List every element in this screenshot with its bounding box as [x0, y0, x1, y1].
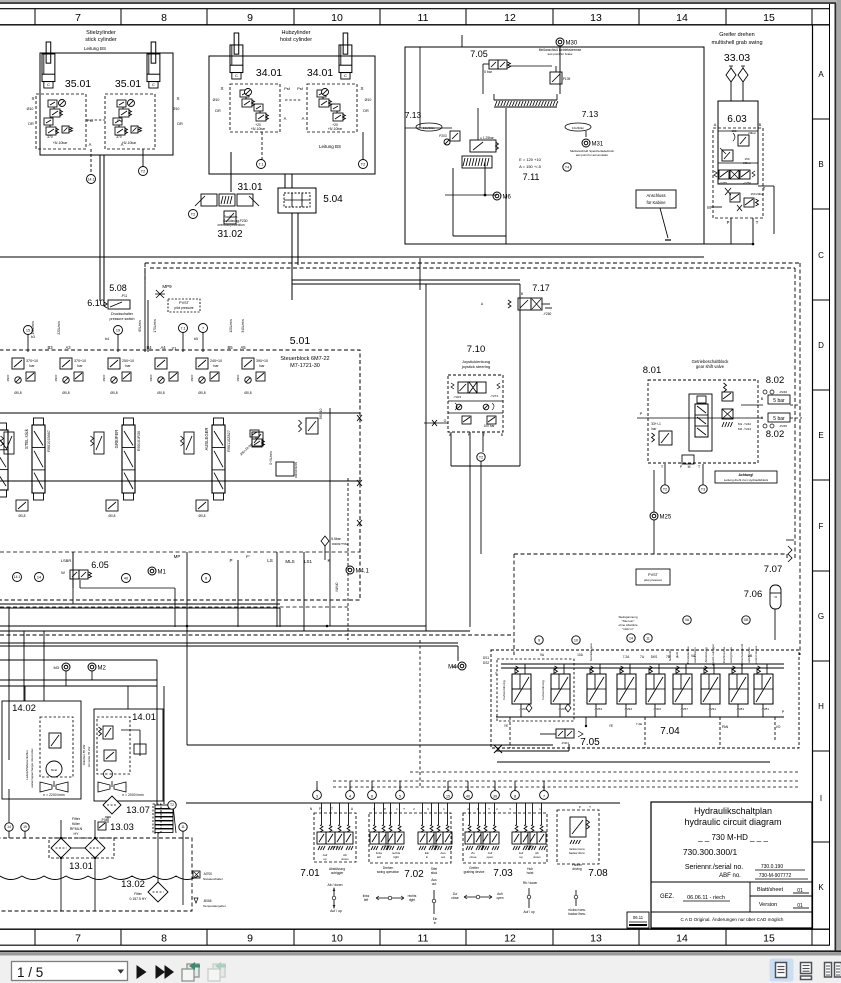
svg-text:11: 11	[181, 825, 185, 829]
svg-text:Ladeluft/Wasserkühler: Ladeluft/Wasserkühler	[25, 750, 29, 780]
svg-text:35.01: 35.01	[65, 78, 91, 90]
svg-text:M3: M3	[53, 665, 59, 670]
svg-text:7.13: 7.13	[582, 109, 599, 119]
svg-text:B: B	[759, 122, 762, 127]
svg-text:7.11: 7.11	[523, 172, 540, 182]
svg-text:7.1: 7.1	[181, 326, 186, 330]
svg-text:7: 7	[202, 326, 204, 330]
svg-text:b3: b3	[31, 335, 35, 339]
svg-text:7.07: 7.07	[764, 564, 783, 575]
svg-text:-P11: -P11	[121, 294, 128, 298]
svg-text:Hydraulikschaltplan: Hydraulikschaltplan	[694, 806, 772, 816]
svg-text:A: A	[89, 142, 92, 147]
svg-text:06.06.11 - riech: 06.06.11 - riech	[687, 895, 725, 901]
svg-text:close: close	[469, 855, 476, 859]
svg-text:B3: B3	[47, 345, 53, 350]
svg-text:hydraulic circuit diagram: hydraulic circuit diagram	[684, 817, 781, 827]
svg-text:Psf: Psf	[87, 118, 94, 123]
svg-text:8.02: 8.02	[766, 429, 785, 440]
svg-text:15: 15	[763, 933, 775, 945]
svg-text:R90101R30: R90101R30	[137, 431, 141, 451]
svg-text:multishell grab swing: multishell grab swing	[711, 40, 762, 46]
svg-text:Temperaturgeber: Temperaturgeber	[203, 904, 226, 908]
svg-text:34.01: 34.01	[256, 67, 282, 79]
svg-text:T3: T3	[701, 487, 705, 491]
svg-text:out: out	[441, 855, 445, 859]
svg-text:Pendelachse: Pendelachse	[686, 646, 690, 664]
svg-text:(670): (670)	[331, 845, 338, 849]
svg-text:-Y256: -Y256	[743, 181, 751, 185]
svg-text:M4: M4	[452, 664, 458, 669]
svg-text:glatz: glatz	[675, 651, 679, 658]
svg-text:B5: B5	[227, 345, 233, 350]
svg-text:15: 15	[26, 328, 30, 332]
svg-text:Ø0,8: Ø0,8	[198, 391, 205, 395]
svg-text:250+10: 250+10	[122, 359, 134, 363]
svg-text:-P245: -P245	[779, 424, 787, 428]
svg-text:C: C	[152, 82, 155, 87]
svg-text:7.02: 7.02	[404, 869, 424, 880]
svg-text:R900609209: R900609209	[294, 462, 298, 478]
svg-text:DB: DB	[748, 654, 752, 658]
svg-text:20bar: 20bar	[743, 161, 751, 165]
svg-text:Abstützung: Abstützung	[704, 647, 708, 662]
svg-text:(670): (670)	[477, 844, 484, 848]
svg-text:R900: R900	[6, 374, 10, 381]
svg-text:-Y302: -Y302	[653, 707, 661, 711]
svg-text:pressure switch: pressure switch	[110, 317, 135, 321]
svg-text:T: T	[763, 186, 766, 191]
svg-text:pilot pressure: pilot pressure	[174, 306, 193, 310]
svg-text:19: 19	[23, 825, 27, 829]
svg-text:X: X	[31, 96, 34, 101]
svg-text:Ø0,8: Ø0,8	[157, 391, 164, 395]
svg-text:DR: DR	[215, 109, 221, 113]
svg-text:-Y255: -Y255	[719, 181, 727, 185]
svg-text:8: 8	[161, 12, 167, 24]
svg-text:33.03: 33.03	[724, 52, 750, 64]
svg-text:5 bar: 5 bar	[773, 416, 785, 422]
svg-text:grabing device: grabing device	[464, 870, 485, 874]
svg-text:13: 13	[590, 933, 602, 945]
svg-text:M: M	[688, 465, 691, 469]
svg-text:P203: P203	[439, 134, 447, 138]
svg-text:hoist cylinder: hoist cylinder	[280, 37, 312, 43]
svg-text:730.0.190: 730.0.190	[761, 864, 783, 870]
svg-text:8.01: 8.01	[643, 365, 662, 376]
svg-text:T4: T4	[565, 165, 569, 169]
svg-text:H: H	[818, 702, 824, 711]
svg-text:füller: füller	[72, 822, 81, 826]
svg-text:Ø10: Ø10	[365, 98, 372, 102]
svg-text:9: 9	[247, 933, 253, 945]
svg-text:AUSLEGER: AUSLEGER	[204, 428, 209, 451]
svg-text:7.1: 7.1	[258, 162, 263, 166]
svg-text:in: in	[434, 921, 437, 925]
svg-text:Getriebe gear: Getriebe gear	[589, 643, 593, 661]
svg-text:MLS: MLS	[285, 559, 294, 564]
svg-text:Hubzylinder: Hubzylinder	[281, 30, 310, 36]
svg-text:7.03: 7.03	[493, 868, 513, 879]
svg-text:right: right	[393, 855, 399, 859]
svg-text:34.01: 34.01	[307, 67, 333, 79]
svg-text:+5/-10bar: +5/-10bar	[53, 141, 68, 145]
svg-text:Ø0,8: Ø0,8	[244, 391, 251, 395]
svg-text:170L/min: 170L/min	[153, 319, 157, 332]
svg-text:test point for brake: test point for brake	[548, 52, 573, 56]
svg-text:6.03: 6.03	[727, 114, 747, 125]
svg-text:oil cooler 65 kW: oil cooler 65 kW	[87, 746, 91, 767]
svg-text:Psf: Psf	[117, 118, 124, 123]
svg-text:7: 7	[543, 795, 545, 799]
svg-text:5 bar: 5 bar	[773, 398, 785, 404]
svg-text:up: up	[519, 855, 523, 859]
svg-text:DR: DR	[28, 122, 34, 126]
svg-text:M4.1: M4.1	[356, 569, 370, 575]
svg-text:M30: M30	[566, 41, 578, 47]
svg-text:14: 14	[7, 825, 11, 829]
svg-text:0.157.5 HY: 0.157.5 HY	[130, 897, 148, 901]
svg-text:C: C	[344, 73, 347, 78]
svg-text:Drehbremse: Drehbremse	[722, 646, 726, 663]
svg-text:(670): (670)	[431, 844, 438, 848]
svg-text:M6: M6	[503, 195, 512, 201]
svg-text:220L/min: 220L/min	[57, 321, 61, 334]
svg-text:Ø0,8: Ø0,8	[110, 391, 117, 395]
svg-text:20bar: 20bar	[748, 131, 756, 135]
svg-text:6: 6	[371, 795, 373, 799]
svg-text:0+3L/min: 0+3L/min	[269, 451, 273, 464]
svg-text:Auf / up: Auf / up	[330, 909, 342, 913]
svg-text:W: W	[61, 570, 65, 575]
svg-text:6.05: 6.05	[91, 560, 109, 570]
svg-text:Ø10: Ø10	[213, 98, 220, 102]
svg-text:Filter: Filter	[72, 817, 81, 821]
svg-text:_ _ 730 M-HD _ _ _: _ _ 730 M-HD _ _ _	[697, 833, 768, 842]
svg-text:PVST: PVST	[648, 573, 659, 577]
svg-text:stick: stick	[431, 871, 438, 875]
svg-text:water/supercharger intercooler: water/supercharger intercooler	[30, 748, 34, 787]
svg-text:Filter: Filter	[134, 892, 142, 896]
svg-text:370+10: 370+10	[74, 359, 86, 363]
svg-text:≈≡: ≈≡	[774, 595, 778, 599]
svg-text:Fahren/driving: Fahren/driving	[541, 680, 545, 700]
svg-text:-P246: -P246	[779, 390, 787, 394]
svg-text:-P230: -P230	[238, 219, 247, 223]
svg-text:Auf / up: Auf / up	[524, 910, 535, 914]
svg-text:Steuerblock 6M7-22: Steuerblock 6M7-22	[280, 356, 329, 362]
svg-text:370: 370	[47, 135, 53, 139]
svg-text:P: P	[229, 558, 232, 563]
svg-text:D: D	[818, 341, 824, 350]
svg-text:P: P	[579, 805, 581, 809]
svg-text:A: A	[284, 116, 287, 121]
svg-text:Leitung dreht zum Hydraulikblo: Leitung dreht zum Hydraulikblock	[724, 478, 769, 482]
svg-text:7.08: 7.08	[588, 868, 608, 879]
svg-text:31.01: 31.01	[237, 182, 262, 193]
svg-text:7.13: 7.13	[405, 110, 422, 120]
svg-text:8: 8	[205, 576, 207, 580]
svg-text:10x/füller: 10x/füller	[572, 126, 584, 130]
svg-text:11: 11	[418, 933, 429, 945]
svg-text:T: T	[756, 220, 759, 225]
svg-text:b4: b4	[105, 337, 109, 341]
svg-text:7.17: 7.17	[532, 283, 550, 293]
svg-text:P: P	[640, 411, 643, 416]
svg-text:Psf: Psf	[284, 86, 291, 91]
svg-text:5.08: 5.08	[109, 283, 127, 293]
svg-text:gear shift valve: gear shift valve	[696, 364, 725, 369]
svg-text:370: 370	[116, 135, 122, 139]
svg-text:PVST: PVST	[179, 301, 190, 305]
svg-text:35.01: 35.01	[115, 78, 141, 90]
svg-text:4-point-outrigger: 4-point-outrigger	[711, 644, 715, 666]
svg-text:swing operation: swing operation	[377, 870, 400, 874]
svg-text:GREIFER: GREIFER	[114, 430, 119, 449]
svg-text:13: 13	[590, 12, 602, 24]
svg-text:Leitung BS: Leitung BS	[84, 46, 106, 51]
svg-text:3: 3	[316, 795, 318, 799]
svg-text:MP9: MP9	[162, 284, 172, 289]
svg-text:K: K	[818, 883, 824, 892]
svg-text:Y1: Y1	[171, 346, 177, 351]
svg-text:40: 40	[466, 795, 470, 799]
svg-text:C: C	[235, 73, 238, 78]
svg-text:7.01: 7.01	[300, 868, 320, 879]
svg-text:R900: R900	[149, 374, 153, 381]
svg-text:Psf: Psf	[297, 86, 304, 91]
svg-text:G: G	[444, 419, 447, 423]
svg-text:Ø0,8: Ø0,8	[199, 514, 206, 518]
svg-text:13.03: 13.03	[110, 822, 134, 833]
svg-text:hoist: hoist	[527, 871, 534, 875]
svg-text:DS2: DS2	[483, 661, 489, 665]
svg-text:340L/min: 340L/min	[241, 319, 245, 332]
svg-text:joystick steering: joystick steering	[461, 364, 490, 369]
svg-text:swing brake: swing brake	[729, 647, 733, 663]
svg-text:14.1: 14.1	[14, 575, 21, 579]
svg-text:Fahren/driving: Fahren/driving	[502, 680, 506, 700]
svg-text:14.01: 14.01	[132, 712, 156, 723]
svg-text:B: B	[521, 292, 523, 296]
svg-text:down: down	[533, 855, 541, 859]
svg-text:(670): (670)	[525, 844, 532, 848]
svg-text:"stütz in": "stütz in"	[622, 627, 634, 631]
svg-text:Mcal: Mcal	[51, 768, 57, 772]
svg-text:I: I	[820, 794, 822, 803]
svg-text:driving: driving	[572, 867, 582, 871]
svg-text:Druckschalter: Druckschalter	[111, 312, 134, 316]
svg-text:B4: B4	[146, 345, 152, 350]
svg-text:DS1: DS1	[483, 656, 489, 660]
svg-text:13.07: 13.07	[126, 805, 150, 816]
svg-text:120L/min: 120L/min	[229, 319, 233, 332]
svg-text:R900977562: R900977562	[332, 542, 348, 546]
svg-text:right: right	[409, 898, 415, 902]
svg-text:390+10: 390+10	[319, 408, 323, 419]
svg-text:5.01: 5.01	[290, 335, 311, 347]
svg-text:stick cylinder: stick cylinder	[85, 37, 117, 43]
svg-text:Ölkühler 85 kW: Ölkühler 85 kW	[82, 745, 86, 766]
svg-text:150: 150	[731, 129, 736, 133]
svg-text:M1 -Y242: M1 -Y242	[738, 422, 751, 426]
svg-text:-Y253: -Y253	[594, 707, 602, 711]
svg-text:1 / 5: 1 / 5	[17, 965, 43, 980]
svg-text:-Y281: -Y281	[736, 707, 744, 711]
svg-text:A: A	[714, 122, 717, 127]
svg-text:A: A	[121, 142, 124, 147]
svg-text:T: T	[589, 805, 591, 809]
svg-text:Achtung!: Achtung!	[739, 473, 754, 477]
svg-text:240+10: 240+10	[210, 359, 222, 363]
svg-text:150: 150	[750, 192, 755, 196]
svg-text:390+10: 390+10	[256, 359, 268, 363]
svg-text:10: 10	[331, 12, 343, 24]
svg-text:≥ 1.25bar: ≥ 1.25bar	[480, 136, 494, 140]
svg-text:open: open	[496, 896, 503, 900]
svg-text:VO: VO	[776, 725, 781, 729]
svg-text:7.2A: 7.2A	[623, 655, 630, 659]
svg-text:Seriennr./serial no.: Seriennr./serial no.	[685, 864, 743, 871]
svg-text:M2 -Y244: M2 -Y244	[738, 427, 751, 431]
svg-text:7: 7	[75, 933, 81, 945]
svg-text:Rb / down: Rb / down	[523, 881, 538, 885]
svg-text:PAN: PAN	[722, 725, 729, 729]
svg-text:-P04: -P04	[101, 818, 108, 822]
svg-text:ABF no.: ABF no.	[719, 873, 741, 879]
svg-text:11: 11	[646, 636, 650, 640]
svg-text:14: 14	[676, 933, 688, 945]
svg-text:(670): (670)	[383, 844, 390, 848]
svg-text:test point for accumulator: test point for accumulator	[576, 153, 608, 157]
svg-text:Version: Version	[759, 902, 777, 908]
svg-text:A: A	[818, 70, 824, 79]
svg-text:bar: bar	[29, 364, 35, 368]
svg-text:40: 40	[124, 576, 128, 580]
svg-text:G: G	[818, 612, 824, 621]
svg-text:P: P	[384, 807, 386, 811]
svg-text:M31: M31	[592, 142, 604, 148]
svg-text:Anschluss: Anschluss	[646, 193, 665, 198]
svg-text:15: 15	[446, 795, 450, 799]
svg-text:7.10: 7.10	[467, 344, 486, 355]
svg-text:9: 9	[538, 638, 540, 642]
svg-text:n = 2200 l/min: n = 2200 l/min	[43, 793, 65, 797]
svg-text:T2: T2	[141, 169, 145, 173]
svg-text:33+/-1: 33+/-1	[651, 422, 661, 426]
svg-text:65L/min: 65L/min	[138, 320, 142, 332]
svg-text:R901015667: R901015667	[47, 430, 51, 452]
svg-text:31.02: 31.02	[217, 229, 242, 240]
svg-text:F: F	[819, 522, 824, 531]
svg-text:14.02: 14.02	[12, 703, 36, 714]
svg-text:M1: M1	[158, 570, 167, 576]
svg-text:YE: YE	[609, 724, 613, 728]
svg-text:A = 150 +/-5: A = 150 +/-5	[519, 164, 542, 169]
svg-text:730.300.300/1: 730.300.300/1	[683, 847, 738, 857]
svg-text:Ab / down: Ab / down	[327, 883, 342, 887]
svg-text:Ø0,8: Ø0,8	[14, 391, 21, 395]
svg-text:-P301: -P301	[561, 741, 569, 745]
svg-text:R900: R900	[236, 374, 240, 381]
svg-text:T2: T2	[191, 212, 195, 216]
svg-text:10: 10	[331, 933, 343, 945]
svg-text:open: open	[487, 855, 494, 859]
svg-text:bar: bar	[259, 364, 265, 368]
svg-text:GEZ.: GEZ.	[660, 894, 674, 900]
svg-text:M2: M2	[98, 666, 107, 672]
svg-text:12: 12	[504, 12, 516, 24]
svg-text:7.2E: 7.2E	[636, 722, 642, 726]
svg-text:LS1: LS1	[304, 559, 313, 564]
svg-text:T2: T2	[361, 162, 365, 166]
svg-text:-Y257: -Y257	[680, 707, 688, 711]
svg-text:7B: 7B	[666, 655, 670, 659]
svg-text:10: 10	[574, 638, 578, 642]
svg-text:5: 5	[399, 795, 401, 799]
svg-text:down: down	[341, 857, 349, 861]
svg-text:4: 4	[349, 795, 351, 799]
svg-text:+5/-10bar: +5/-10bar	[122, 141, 137, 145]
svg-text:bar: bar	[77, 364, 83, 368]
svg-text:left: left	[364, 898, 368, 902]
svg-text:5.04: 5.04	[323, 194, 343, 205]
svg-text:out: out	[432, 882, 437, 886]
svg-text:13.01: 13.01	[69, 861, 93, 872]
svg-text:Leitung BS: Leitung BS	[319, 144, 341, 149]
svg-text:-Y274: -Y274	[490, 394, 498, 398]
svg-text:P: P	[727, 220, 730, 225]
svg-text:13.02: 13.02	[121, 879, 145, 890]
svg-text:-Y294: -Y294	[624, 707, 632, 711]
svg-text:+5/-10bar: +5/-10bar	[328, 127, 343, 131]
svg-text:7.04: 7.04	[660, 726, 680, 737]
svg-text:M: M	[707, 205, 711, 210]
svg-text:7: 7	[75, 12, 81, 24]
svg-text:backw./forw.: backw./forw.	[568, 912, 585, 916]
svg-text:8: 8	[514, 795, 516, 799]
svg-text:730-M-907772: 730-M-907772	[759, 873, 792, 879]
svg-text:Ø0,8: Ø0,8	[62, 391, 69, 395]
svg-text:R900: R900	[190, 374, 194, 381]
svg-text:Stielzylinder: Stielzylinder	[86, 30, 116, 36]
svg-text:39: 39	[493, 795, 497, 799]
svg-text:T: T	[488, 807, 490, 811]
svg-text:left: left	[377, 855, 381, 859]
svg-text:Ø0,8: Ø0,8	[19, 514, 26, 518]
svg-text:-P105: -P105	[562, 77, 571, 81]
svg-text:8.02: 8.02	[766, 375, 785, 386]
svg-text:RFMLN: RFMLN	[70, 827, 83, 831]
svg-text:Ø0,8: Ø0,8	[109, 514, 116, 518]
svg-text:14.1: 14.1	[88, 177, 95, 181]
svg-text:für Kabine: für Kabine	[646, 200, 666, 205]
svg-text:backw./forw.: backw./forw.	[569, 851, 586, 855]
svg-text:19: 19	[116, 328, 120, 332]
svg-text:-Y260: -Y260	[543, 312, 552, 316]
svg-text:T: T	[331, 807, 333, 811]
svg-text:7.05: 7.05	[470, 49, 488, 59]
svg-text:Ø10: Ø10	[27, 107, 34, 111]
svg-text:-Y281: -Y281	[761, 707, 769, 711]
svg-text:X: X	[360, 86, 363, 91]
svg-text:8: 8	[161, 933, 167, 945]
svg-text:15: 15	[763, 12, 775, 24]
svg-text:5.5bar: 5.5bar	[331, 537, 341, 541]
svg-text:6.10: 6.10	[87, 298, 105, 308]
svg-text:DR: DR	[177, 122, 183, 126]
svg-text:06.11: 06.11	[633, 915, 644, 920]
